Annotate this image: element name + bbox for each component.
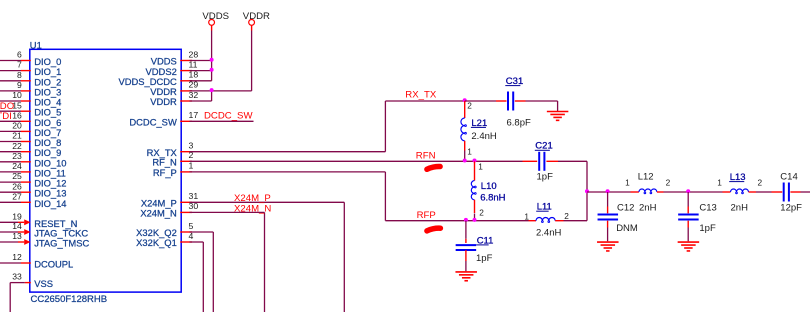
junction RFP / L10 bbox=[473, 218, 477, 222]
wire C14 to right edge bbox=[801, 191, 810, 193]
svg-text:12: 12 bbox=[12, 252, 22, 262]
wire pin28 to VDDS bbox=[190, 60, 212, 62]
svg-text:1: 1 bbox=[625, 178, 630, 188]
svg-text:RFP: RFP bbox=[417, 210, 436, 221]
svg-text:VDDR: VDDR bbox=[243, 11, 270, 22]
svg-text:25: 25 bbox=[12, 171, 22, 181]
svg-text:U1: U1 bbox=[30, 39, 42, 50]
svg-text:16: 16 bbox=[12, 110, 22, 120]
pin 10 DIO_4 of U1 (left side) bbox=[12, 90, 61, 107]
svg-text:VSS: VSS bbox=[34, 278, 53, 289]
red marker annotation under RFP bbox=[427, 228, 441, 231]
svg-text:L12: L12 bbox=[638, 171, 654, 182]
svg-text:26: 26 bbox=[12, 181, 22, 191]
wire net to DIO_13 bbox=[0, 191, 21, 193]
svg-text:2: 2 bbox=[666, 178, 671, 188]
wire net to DCOUPL bbox=[0, 262, 21, 264]
svg-text:1: 1 bbox=[524, 211, 529, 221]
wire net to RESET_N bbox=[0, 221, 18, 223]
pin 4 X32K_Q1 of U1 (right side) bbox=[136, 231, 193, 248]
pin 22 DIO_9 of U1 (left side) bbox=[12, 141, 61, 158]
svg-text:2: 2 bbox=[479, 208, 484, 218]
pin 7 DIO_1 of U1 (left side) bbox=[17, 60, 61, 77]
junction VDDS pin11 bbox=[210, 68, 214, 72]
svg-text:2: 2 bbox=[564, 211, 569, 221]
junction RX_TX / L21 bbox=[463, 98, 467, 102]
wire net to DIO_12 bbox=[0, 181, 21, 183]
wire net to DIO_5 bbox=[0, 110, 21, 112]
svg-text:14: 14 bbox=[12, 221, 22, 231]
wire X24M_P from pin 31 bbox=[190, 201, 345, 203]
wire net to DIO_0 bbox=[0, 60, 21, 62]
inductor L11 2.4nH bbox=[529, 217, 564, 222]
wire riser C21/L11 bbox=[586, 161, 588, 220]
svg-text:27: 27 bbox=[12, 191, 22, 201]
svg-text:8: 8 bbox=[17, 70, 22, 80]
inductor L13 2nH bbox=[723, 189, 757, 194]
pin 15 DIO_5 of U1 (left side) bbox=[12, 100, 61, 117]
svg-text:JTAG_TMSC: JTAG_TMSC bbox=[34, 238, 89, 249]
wire X32K_Q1 from pin 4 bbox=[190, 241, 204, 243]
wire net to DIO_8 bbox=[0, 141, 21, 143]
svg-text:21: 21 bbox=[12, 131, 22, 141]
ground (C13) bbox=[678, 242, 700, 251]
svg-text:C13: C13 bbox=[699, 202, 716, 213]
power symbol VDDR bbox=[243, 11, 270, 31]
wire L11 to riser bbox=[564, 220, 588, 222]
pin 12 DCOUPL of U1 bbox=[12, 252, 73, 269]
wire C11 to ground bbox=[465, 261, 467, 271]
junction RFN / L10 bbox=[473, 159, 477, 163]
svg-text:6.8nH: 6.8nH bbox=[480, 193, 505, 204]
ground (C12) bbox=[597, 242, 619, 251]
pin 23 DIO_10 of U1 (left side) bbox=[12, 151, 66, 168]
wire C31 to ground bbox=[526, 100, 558, 102]
pin 21 DIO_8 of U1 (left side) bbox=[12, 131, 61, 148]
svg-text:13: 13 bbox=[12, 231, 22, 241]
junction RFN / L21 bbox=[463, 159, 467, 163]
wire pin29 to VDDR bbox=[190, 90, 212, 92]
svg-text:1pF: 1pF bbox=[476, 253, 493, 264]
pin 19 RESET_N of U1 (input arrow) bbox=[12, 211, 77, 228]
svg-text:RF_P: RF_P bbox=[153, 167, 177, 178]
svg-text:2.4nH: 2.4nH bbox=[536, 228, 561, 239]
svg-text:17: 17 bbox=[189, 110, 199, 120]
IC U1 CC2650F128RHB (wireless MCU) body bbox=[30, 49, 181, 292]
wire L12 to C13 bbox=[664, 191, 723, 193]
wire RFP row bbox=[385, 220, 528, 222]
svg-text:DCDC_SW: DCDC_SW bbox=[204, 111, 253, 122]
svg-text:L10: L10 bbox=[481, 181, 497, 192]
junction RFP / C11 bbox=[464, 218, 468, 222]
wire net to DIO_1 bbox=[0, 70, 21, 72]
svg-text:24: 24 bbox=[12, 161, 22, 171]
wire pin18 to VDDS bbox=[190, 80, 212, 82]
wire net to DIO_3 bbox=[0, 90, 21, 92]
svg-text:CC2650F128RHB: CC2650F128RHB bbox=[31, 294, 108, 305]
pin 18 VDDS_DCDC of U1 (right side) bbox=[118, 70, 198, 87]
wire RFP to C11 bbox=[465, 221, 467, 239]
wire net to DIO_7 bbox=[0, 130, 21, 132]
pin 16 DIO_6 of U1 (left side) bbox=[12, 110, 61, 127]
wire VDDR horizontal to pin29 bbox=[212, 90, 252, 92]
wire net to DIO_9 bbox=[0, 151, 21, 153]
svg-text:12pF: 12pF bbox=[780, 202, 802, 213]
svg-text:22: 22 bbox=[12, 141, 22, 151]
svg-text:TDI: TDI bbox=[0, 111, 12, 122]
pin 13 JTAG_TMSC of U1 (input arrow) bbox=[12, 231, 89, 248]
wire pin11 to VDDS bbox=[190, 70, 212, 72]
inductor L21 2.4nH bbox=[461, 101, 466, 151]
pin 25 DIO_12 of U1 (left side) bbox=[12, 171, 66, 188]
svg-text:2nH: 2nH bbox=[639, 202, 657, 213]
pin 8 DIO_2 of U1 (left side) bbox=[17, 70, 61, 87]
pin 29 VDDR of U1 (right side) bbox=[150, 80, 198, 97]
pin 3 RX_TX of U1 (right side) bbox=[147, 141, 194, 158]
pin 33 VSS of U1 bbox=[12, 272, 53, 289]
pin 27 DIO_14 of U1 (left side) bbox=[12, 191, 66, 208]
svg-text:RX_TX: RX_TX bbox=[405, 90, 437, 101]
svg-text:28: 28 bbox=[189, 49, 199, 59]
wire net to DIO_11 bbox=[0, 171, 21, 173]
svg-text:6.8pF: 6.8pF bbox=[507, 117, 531, 128]
capacitor C12 DNM bbox=[598, 192, 619, 241]
junction VDDS pin28 bbox=[210, 58, 214, 62]
capacitor C13 1pF bbox=[678, 192, 699, 241]
wire RX_TX horizontal top bbox=[385, 100, 464, 102]
pin 1 RF_P of U1 (right side) bbox=[153, 161, 194, 178]
wire chain row from riser to L12 bbox=[587, 191, 631, 193]
wire net to DIO_4 bbox=[0, 100, 21, 102]
pin 14 JTAG_TCKC of U1 (input arrow) bbox=[12, 221, 88, 238]
svg-text:VDDS: VDDS bbox=[202, 11, 229, 22]
svg-text:5: 5 bbox=[189, 221, 194, 231]
svg-text:DCOUPL: DCOUPL bbox=[34, 259, 73, 270]
power symbol VDDS bbox=[202, 11, 229, 31]
inductor L10 6.8nH bbox=[471, 161, 476, 213]
ground (C11) bbox=[455, 272, 477, 281]
pin 30 X24M_N of U1 (right side) bbox=[140, 201, 198, 218]
pin 2 RF_N of U1 (right side) bbox=[152, 150, 193, 167]
svg-text:C14: C14 bbox=[780, 171, 797, 182]
pin 5 X32K_Q2 of U1 (right side) bbox=[136, 221, 193, 238]
wire RFN from pin 2 RF_N bbox=[190, 160, 523, 162]
wire VDDR vertical bbox=[251, 31, 253, 91]
wire RX_TX from pin 3 bbox=[190, 151, 386, 153]
pin 26 DIO_13 of U1 (left side) bbox=[12, 181, 66, 198]
svg-text:1pF: 1pF bbox=[537, 172, 554, 183]
capacitor C14 12pF bbox=[772, 183, 801, 202]
inductor L12 2nH bbox=[631, 189, 664, 194]
wire net to DIO_2 bbox=[0, 80, 21, 82]
wire DCDC_SW stub bbox=[190, 120, 254, 122]
pin 11 VDDS2 of U1 (right side) bbox=[146, 59, 198, 76]
wire L13 to C14 bbox=[756, 191, 772, 193]
junction C13 bbox=[686, 189, 690, 193]
wire net to DIO_6 bbox=[0, 120, 21, 122]
svg-text:X24M_N: X24M_N bbox=[140, 208, 176, 219]
svg-text:1pF: 1pF bbox=[699, 223, 716, 234]
svg-text:RFN: RFN bbox=[416, 151, 436, 162]
svg-text:1: 1 bbox=[717, 178, 722, 188]
wire VSS to bottom bbox=[10, 282, 25, 284]
capacitor C31 6.8pF bbox=[496, 92, 526, 111]
svg-text:10: 10 bbox=[12, 90, 22, 100]
wire RFP riser bbox=[384, 172, 386, 221]
svg-text:23: 23 bbox=[12, 151, 22, 161]
pin 9 DIO_3 of U1 (left side) bbox=[17, 80, 61, 97]
wire net to DIO_10 bbox=[0, 161, 21, 163]
pin 6 DIO_0 of U1 (left side) bbox=[17, 50, 61, 67]
wire pin32 riser to VDDR bbox=[190, 100, 212, 102]
capacitor C11 1pF bbox=[456, 239, 477, 261]
svg-text:VDDR: VDDR bbox=[150, 96, 177, 107]
junction VDDR bbox=[210, 88, 214, 92]
ground (C31) bbox=[547, 112, 569, 121]
wire X24M_N from pin 30 bbox=[190, 211, 265, 213]
wire VDDS vertical to pins 28/11/18 bbox=[211, 31, 213, 81]
wire RX_TX riser bbox=[384, 101, 386, 152]
svg-text:X24M_N: X24M_N bbox=[234, 203, 271, 214]
svg-text:2nH: 2nH bbox=[731, 202, 749, 213]
svg-text:6: 6 bbox=[17, 50, 22, 60]
wire X32K_Q2 from pin 5 bbox=[190, 231, 214, 233]
svg-text:DIO_14: DIO_14 bbox=[34, 198, 66, 209]
svg-text:31: 31 bbox=[189, 191, 199, 201]
pin 17 DCDC_SW of U1 (right side) bbox=[129, 110, 198, 127]
wire L21 to RFN row bbox=[464, 151, 466, 162]
svg-text:20: 20 bbox=[12, 121, 22, 131]
wire net to JTAG_TMSC bbox=[0, 241, 18, 243]
svg-text:1: 1 bbox=[467, 146, 472, 156]
wire RX_TX to C31 bbox=[465, 100, 496, 102]
svg-text:33: 33 bbox=[12, 272, 22, 282]
red marker annotation under RFN bbox=[427, 166, 440, 169]
svg-text:19: 19 bbox=[12, 211, 22, 221]
svg-text:1: 1 bbox=[478, 161, 483, 171]
svg-text:DNM: DNM bbox=[616, 223, 638, 234]
wire net to DIO_14 bbox=[0, 201, 21, 203]
pin 24 DIO_11 of U1 (left side) bbox=[12, 161, 66, 178]
svg-text:X32K_Q1: X32K_Q1 bbox=[136, 237, 177, 248]
junction C12 bbox=[606, 189, 610, 193]
pin 20 DIO_7 of U1 (left side) bbox=[12, 121, 61, 138]
wire C21 to riser bbox=[558, 160, 587, 162]
svg-text:3: 3 bbox=[189, 141, 194, 151]
wire net to JTAG_TCKC bbox=[0, 231, 18, 233]
capacitor C21 1pF bbox=[523, 152, 559, 171]
wire L10 to RFP row bbox=[474, 214, 476, 221]
svg-text:9: 9 bbox=[17, 80, 22, 90]
svg-text:2: 2 bbox=[467, 101, 472, 111]
svg-text:2.4nH: 2.4nH bbox=[471, 131, 496, 142]
junction chain row bbox=[585, 189, 589, 193]
svg-text:2: 2 bbox=[758, 178, 763, 188]
svg-text:RF_N: RF_N bbox=[152, 157, 176, 168]
pin 31 X24M_P of U1 (right side) bbox=[141, 191, 199, 208]
svg-text:C12: C12 bbox=[617, 202, 634, 213]
pin 32 VDDR of U1 (right side) bbox=[150, 90, 198, 107]
pin 28 VDDS of U1 (right side) bbox=[151, 49, 199, 66]
svg-text:DCDC_SW: DCDC_SW bbox=[129, 117, 177, 128]
svg-text:1: 1 bbox=[189, 161, 194, 171]
svg-text:7: 7 bbox=[17, 60, 22, 70]
wire RF_P from pin 1 bbox=[190, 171, 386, 173]
